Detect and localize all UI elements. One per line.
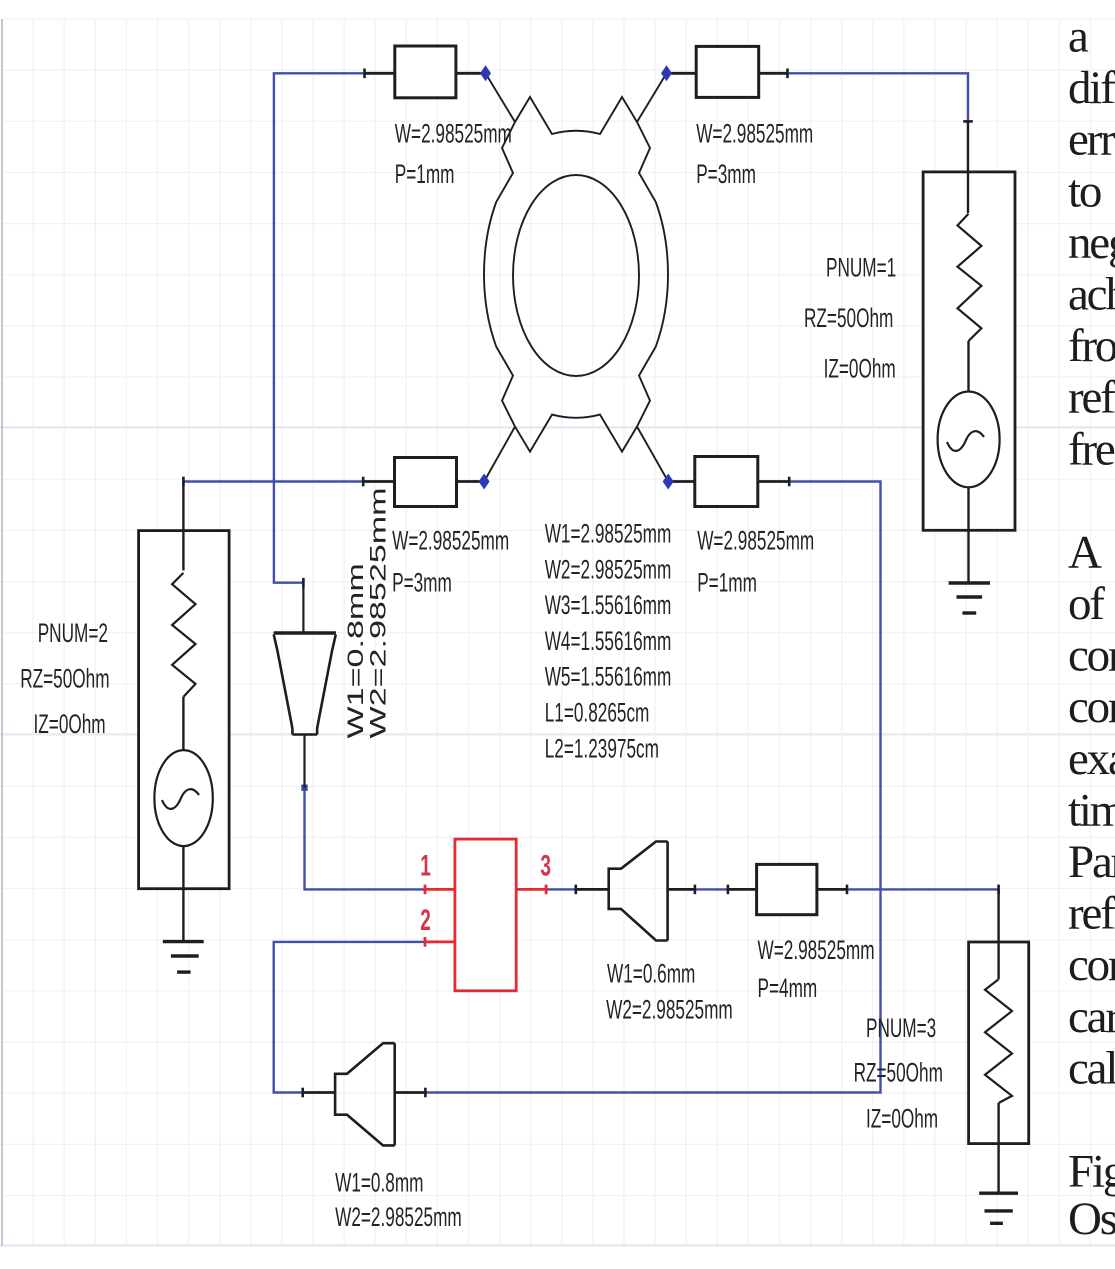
svg-text:frequ: frequ xyxy=(1068,423,1115,475)
ground of port P1 xyxy=(949,583,990,613)
port P2 termination (PNUM=2) xyxy=(139,482,230,942)
port label P2 IZ xyxy=(34,709,106,739)
value label TL3 W xyxy=(392,526,509,556)
wire ring arm top-right xyxy=(637,73,667,122)
tick wire end TL5 left xyxy=(727,885,730,895)
taper MT3 horizontal (W1=0.8mm W2=2.98525mm) xyxy=(303,1043,426,1145)
svg-text:corre: corre xyxy=(1068,939,1115,991)
node junction diamond bottom-left xyxy=(479,474,490,490)
wire net8 TL5 to port3 xyxy=(847,888,999,890)
resistor R of port P3 xyxy=(985,979,1012,1103)
paper body text column xyxy=(1068,11,1115,1246)
taper MT2 horizontal (W1=0.6mm W2=2.98525mm) xyxy=(576,842,695,941)
svg-text:RZ=50Ohm: RZ=50Ohm xyxy=(854,1058,943,1088)
wire net4 left segment to pin2 xyxy=(274,942,425,1093)
value label MT3 W1 xyxy=(335,1168,423,1198)
node junction diamond bottom-right xyxy=(663,474,674,490)
wire net2 TL1 to port1 xyxy=(788,73,969,121)
transmission line TL3 (W=2.98525mm P=3mm) xyxy=(363,458,484,507)
svg-text:W=2.98525mm: W=2.98525mm xyxy=(696,119,813,149)
rat-race ring inner ellipse xyxy=(513,175,639,376)
schematic layer xyxy=(139,46,1029,1223)
red pin 2 stub xyxy=(425,941,455,944)
value label MT1 rotated W2 xyxy=(366,487,391,738)
tick wire end TL4 right xyxy=(788,477,791,487)
resistor R of port P2 xyxy=(172,573,195,697)
transmission line TL5 (W=2.98525mm P=4mm) xyxy=(728,864,847,914)
svg-text:P=4mm: P=4mm xyxy=(758,973,818,1003)
major grid line horizontal 2 xyxy=(0,733,1115,735)
svg-text:corre: corre xyxy=(1068,630,1115,682)
wire ring arm bottom-right xyxy=(637,427,668,482)
svg-text:W2=2.98525mm: W2=2.98525mm xyxy=(335,1202,462,1232)
tick wire end TL5 right xyxy=(846,885,849,895)
pin number 1 red xyxy=(420,851,431,883)
junction node square taper1 bottom xyxy=(301,785,307,791)
svg-text:of: of xyxy=(1068,578,1105,630)
tick wire end TL3 left xyxy=(362,477,365,487)
value label TL2 W xyxy=(696,119,813,149)
AC source of port P2 xyxy=(154,750,212,846)
svg-text:to: to xyxy=(1068,165,1101,217)
text layer xyxy=(20,119,943,1232)
port label P3 IZ xyxy=(866,1104,938,1134)
svg-text:W=2.98525mm: W=2.98525mm xyxy=(392,526,509,556)
svg-text:carr: carr xyxy=(1068,991,1115,1043)
svg-text:a: a xyxy=(1068,11,1089,63)
svg-text:exam: exam xyxy=(1068,733,1115,785)
value label ring W4 xyxy=(545,626,672,656)
svg-text:W=2.98525mm: W=2.98525mm xyxy=(758,935,875,965)
transmission line TL1 (W=2.98525mm P=1mm) xyxy=(365,46,486,98)
taper MT1 vertical (W1=0.8mm W2=2.98525mm) xyxy=(274,583,336,788)
svg-text:W4=1.55616mm: W4=1.55616mm xyxy=(545,626,672,656)
svg-text:P=3mm: P=3mm xyxy=(696,159,756,189)
svg-text:refle: refle xyxy=(1068,372,1115,424)
tick wire end taper3 left xyxy=(301,1088,304,1098)
svg-text:W=2.98525mm: W=2.98525mm xyxy=(395,119,512,149)
wire net3 port2 to TL3 xyxy=(183,480,363,482)
value label ring L1 xyxy=(545,698,650,728)
svg-text:time: time xyxy=(1068,784,1115,836)
red pin 3 stub xyxy=(516,888,546,891)
svg-text:corre: corre xyxy=(1068,681,1115,733)
value label TL1 P xyxy=(395,159,455,189)
wire net6 pin3 to taper2 xyxy=(546,888,576,890)
svg-text:W2=2.98525mm: W2=2.98525mm xyxy=(366,487,391,738)
svg-text:P=1mm: P=1mm xyxy=(697,568,757,598)
svg-text:IZ=0Ohm: IZ=0Ohm xyxy=(824,354,896,384)
svg-text:refle: refle xyxy=(1068,888,1115,940)
value label MT1 rotated W1 xyxy=(344,563,369,738)
value label TL3 P xyxy=(392,568,452,598)
svg-text:L1=0.8265cm: L1=0.8265cm xyxy=(545,698,650,728)
node junction diamond top-left xyxy=(480,65,491,81)
svg-text:Osci: Osci xyxy=(1068,1193,1115,1245)
value label TL2 P xyxy=(696,159,756,189)
svg-text:IZ=0Ohm: IZ=0Ohm xyxy=(34,709,106,739)
transmission line TL4 (W=2.98525mm P=1mm) xyxy=(668,457,789,507)
red tick pin 1 xyxy=(424,885,427,895)
red tick pin 2 xyxy=(424,937,427,947)
svg-text:W1=0.8mm: W1=0.8mm xyxy=(335,1168,423,1198)
value label MT2 W1 xyxy=(607,959,695,989)
svg-text:W5=1.55616mm: W5=1.55616mm xyxy=(545,662,672,692)
tick wire end taper2 left xyxy=(574,885,577,895)
value label MT2 W2 xyxy=(606,995,733,1025)
major grid line bottom xyxy=(0,1245,1115,1247)
wire net5 taper1 to pin1 xyxy=(305,788,426,890)
svg-text:W1=0.8mm: W1=0.8mm xyxy=(344,563,369,738)
value label TL4 P xyxy=(697,568,757,598)
port label P1 IZ xyxy=(824,354,896,384)
wire net7 taper2 to TL5 xyxy=(695,888,728,890)
ground of port P2 xyxy=(163,942,204,973)
svg-text:W2=2.98525mm: W2=2.98525mm xyxy=(606,995,733,1025)
pin number 3 red xyxy=(540,851,551,883)
red 3-port component block xyxy=(425,839,546,991)
port label P3 PNUM xyxy=(866,1013,936,1043)
AC source of port P1 xyxy=(938,392,1000,488)
svg-text:W=2.98525mm: W=2.98525mm xyxy=(697,526,814,556)
value label TL4 W xyxy=(697,526,814,556)
svg-text:A: A xyxy=(1068,526,1102,578)
tick wire end taper1 top xyxy=(302,578,305,588)
port P1 termination (PNUM=1) xyxy=(923,121,1015,583)
svg-text:IZ=0Ohm: IZ=0Ohm xyxy=(866,1104,938,1134)
value label ring L2 xyxy=(545,734,659,764)
svg-text:RZ=50Ohm: RZ=50Ohm xyxy=(20,664,109,694)
tick wire end taper2 right xyxy=(694,885,697,895)
rat-race ring hybrid outer contour xyxy=(484,97,668,452)
tick wire end TL2 right xyxy=(786,69,789,79)
pin number 2 red xyxy=(420,905,431,937)
value label TL5 P xyxy=(758,973,818,1003)
svg-text:2: 2 xyxy=(420,905,431,937)
red pin 1 stub xyxy=(425,888,455,891)
svg-text:W1=2.98525mm: W1=2.98525mm xyxy=(545,519,672,549)
port label P1 PNUM xyxy=(826,253,896,283)
port label P2 RZ xyxy=(20,664,109,694)
svg-text:Param: Param xyxy=(1068,836,1115,888)
value label ring W3 xyxy=(545,590,672,620)
port P3 termination (PNUM=3) xyxy=(969,889,1029,1193)
node junction diamond top-right xyxy=(661,65,672,81)
value label ring W1 xyxy=(545,519,672,549)
value label MT3 W2 xyxy=(335,1202,462,1232)
tick wire end taper3 right xyxy=(424,1088,427,1098)
wire ring arm bottom-left xyxy=(484,427,515,482)
port label P3 RZ xyxy=(854,1058,943,1088)
svg-text:W2=2.98525mm: W2=2.98525mm xyxy=(545,555,672,585)
svg-text:PNUM=1: PNUM=1 xyxy=(826,253,896,283)
svg-text:P=1mm: P=1mm xyxy=(395,159,455,189)
svg-text:RZ=50Ohm: RZ=50Ohm xyxy=(804,303,893,333)
svg-text:W3=1.55616mm: W3=1.55616mm xyxy=(545,590,672,620)
svg-text:1: 1 xyxy=(420,851,431,883)
tick wire end port1 pin xyxy=(963,120,973,123)
svg-text:negat: negat xyxy=(1068,217,1115,269)
svg-text:achie: achie xyxy=(1068,269,1115,321)
tick wire end port3 pin xyxy=(997,885,1000,895)
svg-text:PNUM=3: PNUM=3 xyxy=(866,1013,936,1043)
port label P1 RZ xyxy=(804,303,893,333)
port label P2 PNUM xyxy=(38,618,108,648)
left border line xyxy=(1,19,3,1246)
tick wire end TL1 left xyxy=(363,69,366,79)
resistor R of port P1 xyxy=(958,214,982,341)
ground of port P3 xyxy=(979,1193,1018,1223)
major grid line horizontal 1 xyxy=(0,426,1115,428)
svg-text:L2=1.23975cm: L2=1.23975cm xyxy=(545,734,659,764)
svg-text:from: from xyxy=(1068,320,1115,372)
wire net1 top horizontal xyxy=(274,73,365,582)
svg-text:W1=0.6mm: W1=0.6mm xyxy=(607,959,695,989)
svg-text:calc: calc xyxy=(1068,1042,1115,1094)
wire net4 TL4 right long loop xyxy=(425,482,880,1093)
value label ring W5 xyxy=(545,662,672,692)
svg-text:Figu: Figu xyxy=(1068,1146,1115,1198)
svg-text:PNUM=2: PNUM=2 xyxy=(38,618,108,648)
value label TL1 W xyxy=(395,119,512,149)
svg-text:3: 3 xyxy=(540,851,551,883)
svg-text:error: error xyxy=(1068,114,1115,166)
red tick pin 3 xyxy=(545,885,548,895)
svg-text:P=3mm: P=3mm xyxy=(392,568,452,598)
tick wire end port2 pin xyxy=(182,477,185,487)
wire ring arm top-left xyxy=(486,73,516,122)
value label TL5 W xyxy=(758,935,875,965)
value label ring W2 xyxy=(545,555,672,585)
svg-text:diffe: diffe xyxy=(1068,62,1115,114)
transmission line TL2 (W=2.98525mm P=3mm) xyxy=(667,46,788,97)
